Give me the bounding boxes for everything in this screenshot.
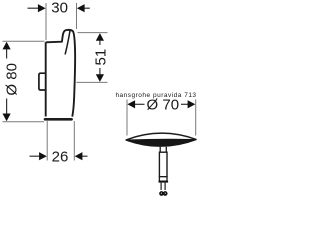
left tab <box>39 73 45 90</box>
svg-text:30: 30 <box>51 0 68 17</box>
dimension Ø 80 (left) <box>3 41 45 122</box>
svg-text:26: 26 <box>52 148 69 165</box>
plug cap top arc <box>126 133 196 140</box>
dimension 26 (bottom) <box>30 121 88 165</box>
plug cap underside band <box>126 139 196 146</box>
svg-text:Ø 70: Ø 70 <box>147 97 180 114</box>
svg-text:51: 51 <box>93 49 110 66</box>
plug pin double ball tip <box>159 191 167 196</box>
dimension Ø 70 (right view, top) <box>127 97 196 136</box>
left view: drain trim body outline <box>45 30 75 119</box>
plug stem collar <box>160 147 166 152</box>
plug pin rod <box>161 183 165 190</box>
plug stem lower section <box>159 177 167 182</box>
dimension 51 (right) <box>76 33 109 83</box>
dimension 30 (top) <box>28 0 90 40</box>
svg-text:hansgrohe puravida 713: hansgrohe puravida 713 <box>115 92 196 99</box>
plug stem flange line <box>159 181 169 183</box>
plug stem cylinder <box>159 152 167 177</box>
svg-text:Ø 80: Ø 80 <box>3 63 20 96</box>
hook inner line <box>65 30 70 54</box>
